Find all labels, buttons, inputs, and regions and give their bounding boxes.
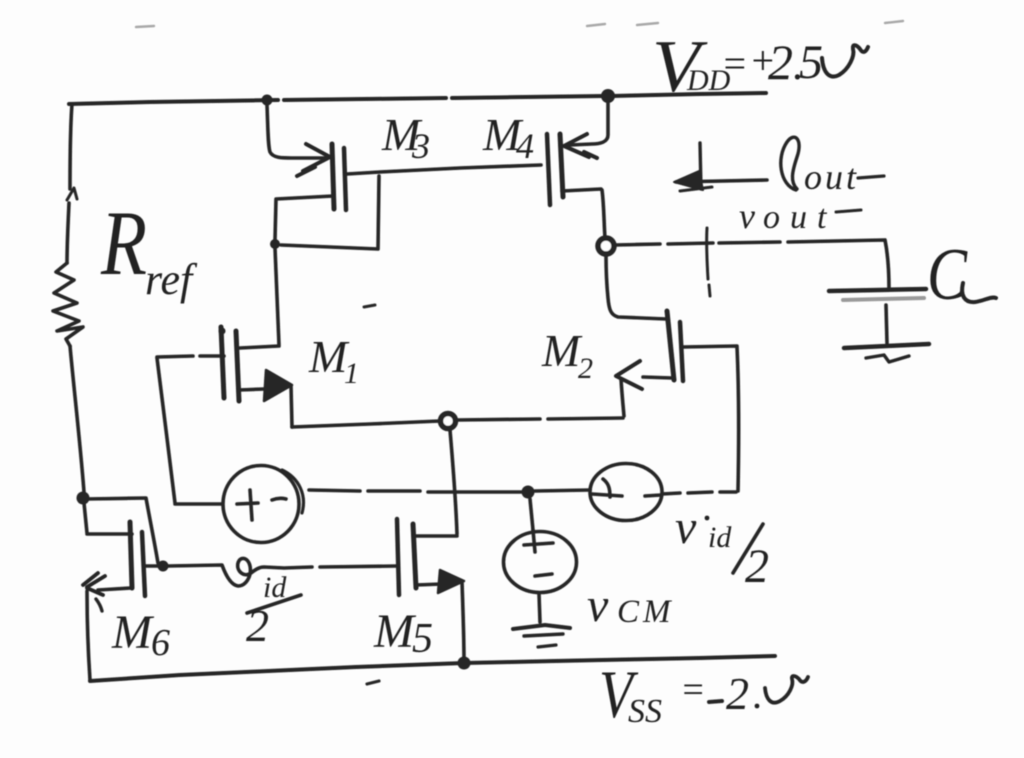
vcm plus bbox=[524, 530, 553, 552]
wire M2 gate lead bbox=[683, 346, 739, 491]
svg-text:ref: ref bbox=[145, 255, 198, 304]
wire vcm to ground bbox=[539, 594, 540, 622]
svg-text:SS: SS bbox=[628, 693, 662, 730]
node tail ring bbox=[441, 414, 456, 429]
svg-text:M: M bbox=[541, 325, 583, 376]
svg-text:v: v bbox=[587, 579, 609, 632]
wire output line bbox=[615, 240, 889, 289]
svg-text:6: 6 bbox=[151, 622, 170, 664]
svg-text:4: 4 bbox=[516, 126, 534, 166]
svg-text:CM: CM bbox=[617, 594, 675, 630]
wire vcm node to vid2 right bbox=[535, 490, 590, 491]
wire M3 gate-drain tie bbox=[281, 176, 379, 249]
wire gate bias line M6 to M5 with vid script loop bbox=[168, 558, 398, 586]
transistor M3 source arrow bbox=[297, 144, 330, 176]
wire VDD rail bbox=[69, 93, 766, 104]
svg-text:2: 2 bbox=[726, 668, 749, 719]
voltage source vcm circle bbox=[504, 532, 577, 593]
wire tail to M5 drain bbox=[414, 430, 457, 536]
arrow iout bbox=[674, 143, 767, 191]
node M6 gate junction bbox=[158, 561, 169, 572]
svg-text:v: v bbox=[739, 196, 755, 236]
vid2 left plus bbox=[237, 490, 258, 520]
transistor M1 source lead and arrow bbox=[239, 370, 292, 427]
voltage source vid2 left circle bbox=[223, 466, 303, 543]
dash below VSS rail bbox=[367, 681, 379, 684]
wire M6 gate-drain tie bbox=[86, 498, 158, 563]
wire M3 gate to M4 gate bbox=[347, 165, 541, 174]
wire vid2-left to vcm node bbox=[309, 490, 521, 492]
svg-text:5: 5 bbox=[412, 616, 433, 662]
svg-text:3: 3 bbox=[411, 126, 430, 166]
transistor M6 channel plate bbox=[130, 522, 132, 588]
wire M1 gate loop to vid source bbox=[157, 358, 222, 504]
transistor M4 channel plate bbox=[560, 134, 563, 197]
label M4 bbox=[482, 109, 534, 166]
node rail-right junction bbox=[601, 89, 615, 103]
dash mark above M1 bbox=[364, 305, 375, 307]
transistor M3 source wire bbox=[267, 105, 325, 158]
label vid2 left bbox=[246, 571, 301, 651]
wire vcm branch bbox=[530, 499, 533, 530]
wire M3 drain lead bbox=[275, 196, 333, 240]
svg-text:C: C bbox=[927, 234, 968, 316]
ground CL bbox=[844, 344, 929, 362]
label M2 bbox=[541, 325, 593, 385]
transistor M2 gate plate bbox=[680, 322, 683, 381]
svg-text:2: 2 bbox=[246, 600, 269, 651]
label vid2 right bbox=[675, 501, 769, 593]
transistor M3 gate plate bbox=[344, 148, 346, 210]
node M5 source junction bbox=[458, 657, 471, 670]
tick vout marker bbox=[707, 228, 710, 296]
transistor M4 gate plate bbox=[547, 134, 550, 205]
transistor M1 gate plate bbox=[219, 327, 226, 398]
label vout bbox=[739, 196, 861, 236]
vid2 left minus bbox=[272, 498, 286, 500]
svg-text:=: = bbox=[680, 669, 706, 711]
node vcm junction bbox=[522, 486, 535, 499]
transistor M5 source lead and arrow bbox=[416, 570, 464, 661]
label vCM bbox=[587, 579, 675, 632]
transistor M6 source lead and arrow bbox=[83, 573, 131, 680]
transistor M2 source lead and arrow bbox=[616, 361, 672, 416]
label CL bbox=[927, 234, 996, 316]
label M3 bbox=[381, 109, 430, 166]
label M1 bbox=[308, 331, 359, 390]
label M6 bbox=[111, 606, 170, 664]
vid2 right plus bbox=[592, 479, 622, 497]
wire M6 gate link bbox=[145, 564, 161, 568]
node rail-left junction bbox=[262, 95, 273, 106]
label iout bbox=[781, 137, 884, 197]
node output ring bbox=[598, 238, 614, 254]
transistor M3 channel plate bbox=[332, 144, 334, 209]
transistor M4 source arrow bbox=[564, 134, 597, 158]
resistor Rref bbox=[53, 263, 83, 346]
svg-text:5: 5 bbox=[799, 36, 823, 89]
svg-text:2: 2 bbox=[745, 540, 769, 593]
transistor M6 gate plate bbox=[142, 532, 145, 596]
svg-text:M: M bbox=[111, 606, 155, 659]
svg-text:2: 2 bbox=[768, 34, 793, 90]
ground vcm bbox=[513, 625, 570, 647]
svg-text:M: M bbox=[373, 605, 417, 658]
svg-text:out: out bbox=[804, 157, 859, 197]
node M3 drain junction bbox=[270, 239, 280, 249]
wire M6 drain lead bbox=[84, 503, 132, 534]
label M5 bbox=[373, 605, 433, 662]
wire left rail lower bbox=[70, 346, 84, 492]
transistor M2 channel plate bbox=[667, 311, 674, 380]
wire differential pair source join bbox=[292, 418, 623, 427]
svg-text:=: = bbox=[721, 41, 748, 86]
label VDD = +2.5V bbox=[652, 26, 868, 108]
wire M1 gate lead bbox=[157, 356, 224, 357]
vcm minus bbox=[535, 574, 552, 576]
transistor M5 channel plate bbox=[413, 524, 416, 588]
tick apostrophe near M6 bbox=[96, 599, 102, 611]
faint top dashes bbox=[136, 21, 903, 27]
svg-text:R: R bbox=[100, 192, 147, 294]
capacitor CL top plate bbox=[829, 289, 926, 300]
svg-text:2: 2 bbox=[578, 352, 593, 385]
vid2 right minus bbox=[645, 495, 661, 496]
wire vid2-right to M2 gate bbox=[662, 492, 736, 494]
wire VSS rail bbox=[90, 656, 775, 681]
tick on left wire bbox=[67, 188, 77, 200]
wire M4 drain lead bbox=[562, 189, 605, 238]
transistor M5 gate plate bbox=[397, 519, 399, 595]
svg-text:1: 1 bbox=[344, 357, 359, 390]
wire M3 drain to M1 drain bbox=[240, 248, 279, 348]
svg-text:out: out bbox=[763, 199, 836, 236]
svg-text:id: id bbox=[708, 521, 732, 554]
transistor M2 drain wire bbox=[606, 255, 666, 319]
node Rref-M6 junction bbox=[77, 492, 90, 505]
transistor M1 channel plate bbox=[236, 331, 239, 401]
svg-text:v: v bbox=[675, 501, 697, 554]
wire left rail upper bbox=[67, 104, 72, 263]
label VSS = -2.5V bbox=[599, 656, 808, 732]
label Rref bbox=[100, 192, 198, 304]
wire CL bottom lead bbox=[886, 305, 887, 343]
voltage source vid2 right circle bbox=[590, 464, 662, 521]
transistor M4 source wire bbox=[570, 102, 608, 145]
